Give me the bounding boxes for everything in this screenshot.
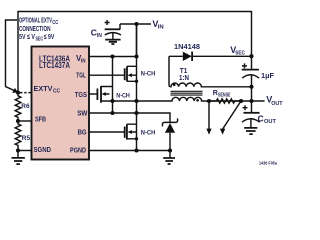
diode 1N4148 [169,44,252,61]
node M2 drain junction [110,54,114,58]
svg-text:OUT: OUT [264,119,276,125]
svg-text:IN: IN [97,33,102,39]
figure number [259,161,277,166]
pin label SW [77,109,88,118]
wire EXTVCC dashed [20,92,32,94]
pin label SGND [34,145,52,154]
svg-text:1N4148: 1N4148 [174,44,200,51]
pin label VIN [76,54,86,65]
svg-text:C: C [258,113,264,123]
pin label BG [78,128,87,137]
transistor Q3 N-CH bottom (BG) [89,124,156,140]
svg-text:BG: BG [78,128,87,137]
wire M1/M2/M3 right vertical [136,24,138,151]
transistor Q1 N-CH top large (TGL) [89,66,156,83]
svg-text:EXTV: EXTV [34,84,53,93]
svg-text:SENSE: SENSE [218,92,231,98]
node SGND junction [16,148,20,152]
node SW junction left [110,111,114,115]
transformer T1 secondary winding [169,56,251,87]
svg-text:IN: IN [81,59,86,65]
node RSENSE left junction [207,99,211,103]
wire M2 source to SW [112,87,114,114]
svg-text:CC: CC [53,88,60,94]
svg-text:T1: T1 [180,68,188,75]
node secondary-to-VOUT junction [249,85,253,89]
svg-text:1:N: 1:N [179,75,189,82]
node SFB junction [16,119,20,123]
svg-text:5V ≤ V: 5V ≤ V [19,32,35,41]
svg-text:SEC: SEC [235,51,245,57]
IC U1 LTC1436A/LTC1437A [32,47,90,160]
annotation OPTIONAL EXTVCC CONNECTION [19,16,59,43]
wire source line with transformer primary T1 [101,97,265,101]
svg-text:≤ 9V: ≤ 9V [44,32,55,41]
transformer primary phase dot [196,99,199,102]
wire VIN pin to MOSFET drains [89,56,137,58]
wire SFB [18,120,32,122]
node VIN label [152,19,163,31]
node SW junction right [134,111,138,115]
ground (Schottky/PGND) [163,151,175,165]
svg-text:LTC1437A: LTC1437A [39,61,70,70]
pin label SFB [35,115,46,124]
svg-text:N-CH: N-CH [141,129,156,136]
svg-text:SGND: SGND [34,145,52,154]
svg-text:N-CH: N-CH [116,92,130,99]
wire secondary junction to VOUT node [251,87,253,113]
wire M2 drain riser [112,57,114,87]
svg-text:SW: SW [77,109,88,118]
wire SGND [18,150,32,152]
ground (CIN) [105,40,120,44]
svg-text:TGL: TGL [76,70,86,79]
capacitor CIN [91,20,121,39]
node VOUT junction [249,99,253,103]
svg-text:CC: CC [52,20,58,26]
node VSEC label [230,45,245,57]
node Schottky anode ground junction [168,148,172,152]
diode D1 Schottky [162,118,177,150]
svg-text:PGND: PGND [70,145,86,154]
svg-text:1µF: 1µF [261,73,275,80]
node VSEC junction [249,54,253,58]
wire VIN riser and top node [120,24,151,57]
pin label TGS [75,90,87,99]
wire PGND line [89,150,170,152]
arrow to SENSE- (diagonal from RSENSE right) [220,101,241,135]
resistor RSENSE [209,90,241,103]
pin label PGND [70,145,86,154]
node M1 drain junction [134,54,138,58]
capacitor COUT [242,105,276,127]
wire SW line [89,113,170,122]
pin label TGL [76,70,86,79]
node EXTVCC junction [16,91,20,95]
svg-text:1436 F05a: 1436 F05a [259,161,277,166]
svg-text:SEC: SEC [36,37,44,43]
svg-text:R5: R5 [22,135,31,142]
transistor Q2 N-CH small (TGS) [89,86,130,103]
node M2 source junction [110,99,114,103]
pin label EXTVCC [34,84,61,95]
svg-text:OUT: OUT [271,101,283,107]
ground (COUT) [244,128,257,134]
node VIN junction [134,22,138,26]
top rail wire from EXTVCC feed to VSEC [18,12,252,93]
arrow to SENSE+ (down from primary junction) [206,101,211,135]
svg-text:N-CH: N-CH [141,71,156,78]
svg-text:TGS: TGS [75,90,87,99]
svg-text:IN: IN [158,25,164,31]
transformer T1 core [171,91,203,95]
svg-text:SFB: SFB [35,115,46,124]
node M3 source on PGND [134,148,138,152]
node VOUT label [266,95,283,107]
ground (R5/SGND) [12,151,25,165]
node primary-line junction [134,99,138,103]
resistor R5 [15,121,30,151]
leader arrow from annotation to EXTVCC node [6,20,19,93]
node RSENSE right junction [239,99,243,103]
resistor R6 [15,93,30,121]
capacitor 1uF [242,56,275,87]
transformer T1 labels [179,68,189,82]
svg-text:R6: R6 [21,103,30,110]
